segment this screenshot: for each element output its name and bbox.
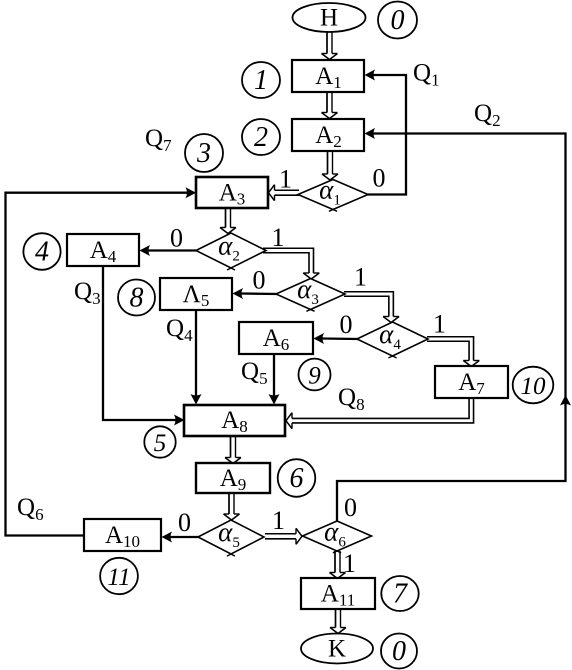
svg-text:1: 1 xyxy=(279,165,292,194)
decision diamond alpha4 xyxy=(357,322,428,356)
wire Q4: Lambda5 down to A8 top xyxy=(195,309,197,396)
svg-text:1: 1 xyxy=(433,310,446,339)
operator box A9 xyxy=(196,463,270,493)
state circle 1 xyxy=(242,62,280,98)
svg-text:0: 0 xyxy=(392,636,406,667)
operator box A1 xyxy=(292,60,364,92)
state circle 4 xyxy=(23,233,60,270)
hollow elbow alpha2 '1' branch to alpha3 xyxy=(263,248,314,273)
operator box A7 xyxy=(435,366,508,398)
operator box Lambda5 xyxy=(160,278,232,310)
svg-text:10: 10 xyxy=(521,373,547,400)
state circle 5 xyxy=(144,426,175,457)
svg-text:0: 0 xyxy=(170,224,183,253)
hollow elbow alpha3 '1' branch to alpha4 xyxy=(344,292,393,317)
hollow arrow H to A1 xyxy=(326,31,328,54)
svg-text:9: 9 xyxy=(308,363,321,390)
svg-text:0: 0 xyxy=(391,5,405,36)
wire alpha4 '0' branch to A6 xyxy=(322,337,358,340)
arrowhead into A3 left xyxy=(186,187,197,198)
wire Q1 feedback: alpha1 '0' branch to A1 xyxy=(366,75,406,195)
arrowhead into A2 right xyxy=(365,128,376,139)
hollow arrow A3 to alpha2 xyxy=(225,207,227,228)
svg-text:1: 1 xyxy=(354,263,367,292)
svg-text:4: 4 xyxy=(35,237,49,268)
state circle 11 xyxy=(100,558,138,594)
state circle 7 xyxy=(381,576,418,611)
wire alpha2 '0' branch to A4 xyxy=(148,249,197,251)
svg-text:7: 7 xyxy=(393,579,408,610)
svg-text:1: 1 xyxy=(254,65,268,96)
svg-text:5: 5 xyxy=(154,430,167,457)
wire Q2 feedback: alpha6 '0' branch up to A2 xyxy=(337,134,566,522)
state circle 10 xyxy=(513,367,554,404)
arrowhead into A1 right xyxy=(365,70,376,81)
arrowhead into A4 right xyxy=(140,245,151,256)
hollow arrow A1 to A2 xyxy=(326,91,328,113)
hollow arrow A11 to K xyxy=(335,608,337,628)
terminator ellipse H (start) xyxy=(293,3,366,32)
svg-text:2: 2 xyxy=(254,122,268,153)
arrowhead into A10 right xyxy=(162,532,173,543)
svg-text:3: 3 xyxy=(196,138,211,169)
svg-text:0: 0 xyxy=(253,266,266,295)
hollow arrow A9 to alpha5 xyxy=(228,492,230,514)
decision diamond alpha1 xyxy=(298,180,368,210)
arrowhead into A8 left xyxy=(174,415,185,426)
state circle 6 xyxy=(278,459,316,497)
svg-text:K: K xyxy=(328,636,346,663)
svg-text:0: 0 xyxy=(340,310,353,339)
operator box A8 xyxy=(184,405,285,436)
operator box A4 xyxy=(67,234,139,266)
hollow arrow alpha1 '1' branch to A3 (points left) xyxy=(275,189,300,191)
decision diamond alpha3 xyxy=(276,279,345,310)
arrowhead into A8 top (Q4) xyxy=(191,394,202,405)
hollow elbow alpha4 '1' branch to A7 xyxy=(427,337,474,361)
operator box A11 xyxy=(301,578,375,609)
operator box A10 xyxy=(84,519,161,551)
svg-text:8: 8 xyxy=(130,283,144,314)
state circle 3 xyxy=(185,134,223,172)
hollow arrow alpha5 '1' branch to alpha6 (points right) xyxy=(265,533,296,535)
state circle 0 (top, next to H) xyxy=(378,2,417,39)
wire Q3: A4 down then right to A8 left xyxy=(103,265,176,420)
svg-text:0: 0 xyxy=(178,508,191,537)
decision diamond alpha2 xyxy=(196,233,266,268)
state circle 0 (bottom, next to K) xyxy=(381,634,417,669)
svg-text:1: 1 xyxy=(272,223,285,252)
svg-text:11: 11 xyxy=(107,564,130,591)
decision diamond alpha6 xyxy=(303,521,372,551)
operator box A6 xyxy=(239,322,313,354)
arrowhead into Lambda5 right xyxy=(233,288,244,299)
arrowhead into A8 top (Q5) xyxy=(269,394,280,405)
state circle 9 xyxy=(299,359,331,391)
state circle 2 xyxy=(242,119,280,155)
wire alpha5 '0' branch to A10 xyxy=(170,536,199,538)
arrowhead into A6 right xyxy=(314,333,325,344)
terminator ellipse K (end) xyxy=(301,634,373,664)
mid-line arrowhead on Q2 vertical (pointing up) xyxy=(560,395,571,406)
operator box A3 xyxy=(196,177,268,208)
svg-text:1: 1 xyxy=(343,549,356,578)
decision diamond alpha5 xyxy=(198,520,264,554)
hollow elbow Q8: A7 bottom to A8 right xyxy=(292,397,469,418)
svg-text:0: 0 xyxy=(344,493,357,522)
wire Q5: A6 down to A8 top xyxy=(273,353,275,396)
wire alpha3 '0' branch to Lambda5 box xyxy=(241,292,277,295)
state circle 8 xyxy=(118,280,155,316)
hollow arrow A2 to alpha1 xyxy=(327,150,329,174)
svg-text:H: H xyxy=(320,5,338,32)
hollow arrow alpha6 '1' branch to A11 xyxy=(334,551,336,573)
svg-text:0: 0 xyxy=(373,164,386,193)
svg-text:6: 6 xyxy=(290,463,304,494)
hollow arrow A8 to A9 xyxy=(230,435,232,458)
svg-text:1: 1 xyxy=(272,506,285,535)
wire Q6 loop: A10 left around to A3 left xyxy=(6,193,189,536)
operator box A2 xyxy=(292,119,364,151)
